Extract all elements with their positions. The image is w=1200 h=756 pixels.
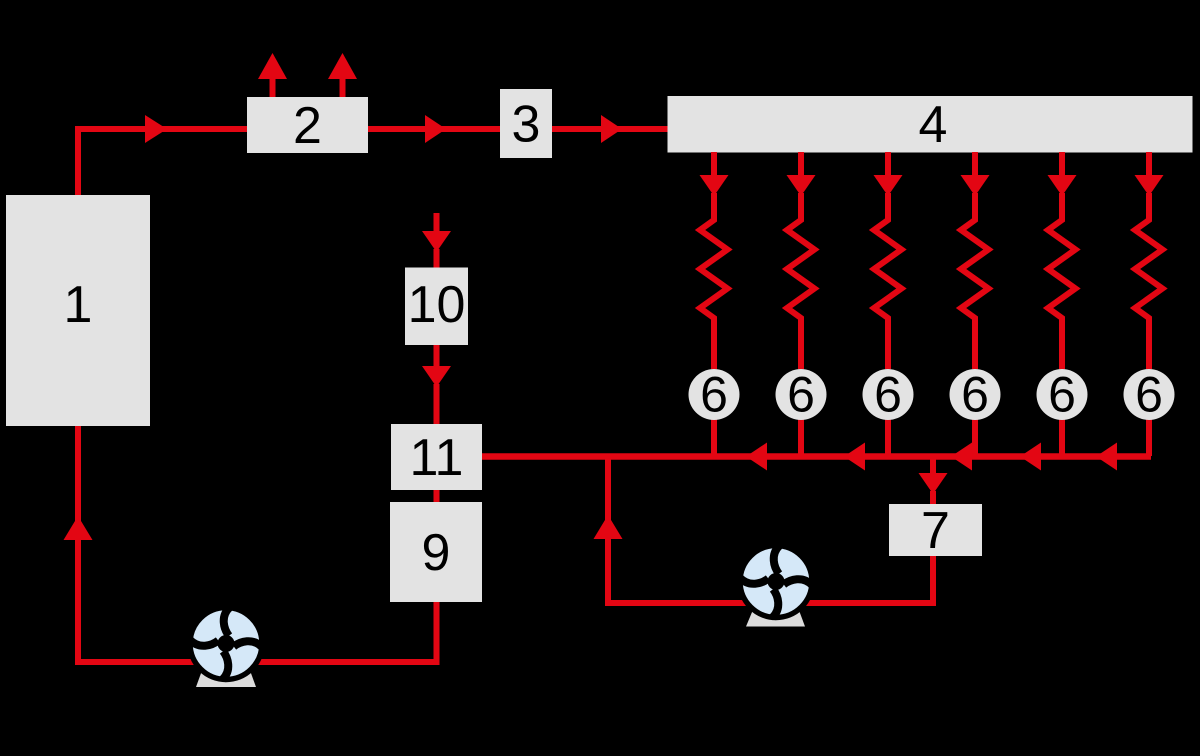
radiator branch 2: [787, 152, 816, 369]
wire from component 2 to component 3: [368, 115, 500, 143]
wire from bus down into component 7: [919, 456, 948, 504]
left loop wire: component 9 to pump 5 to component 1: [64, 426, 437, 662]
component 10: [405, 268, 468, 346]
svg-text:6: 6: [874, 367, 902, 423]
svg-text:4: 4: [919, 96, 948, 154]
vent arrow right on component 2: [328, 53, 357, 97]
component 9: [390, 502, 482, 602]
valve 6 c: [863, 367, 914, 423]
svg-text:11: 11: [410, 429, 464, 487]
component 11: [391, 424, 482, 490]
stems from valves 6 to return bus: [714, 419, 1149, 456]
svg-text:6: 6: [1135, 367, 1163, 423]
svg-text:7: 7: [921, 502, 950, 560]
component 1: [6, 195, 150, 426]
valve 6 b: [776, 367, 827, 423]
svg-text:9: 9: [422, 524, 451, 582]
return bus wire: [482, 443, 1151, 471]
stub between component 11 and component 9: [434, 488, 440, 504]
valve 6 f: [1124, 367, 1175, 423]
svg-text:6: 6: [700, 367, 728, 423]
component 3: [500, 89, 552, 158]
component 4 manifold: [668, 96, 1193, 154]
svg-text:6: 6: [1048, 367, 1076, 423]
radiator branch 5: [1048, 152, 1077, 369]
valve 6 e: [1037, 367, 1088, 423]
pump 5: [186, 603, 266, 687]
radiator branch 1: [700, 152, 729, 369]
valve 6 a: [689, 367, 740, 423]
valve 6 d: [950, 367, 1001, 423]
svg-text:2: 2: [293, 97, 322, 155]
svg-text:6: 6: [961, 367, 989, 423]
component 7: [889, 502, 982, 560]
wire from component 1 top to component 2: [78, 115, 248, 196]
svg-text:1: 1: [64, 276, 93, 334]
input arrow into component 10: [422, 213, 451, 268]
radiator branch 6: [1135, 152, 1164, 369]
svg-text:6: 6: [787, 367, 815, 423]
vent arrow left on component 2: [258, 53, 287, 97]
svg-text:3: 3: [512, 96, 541, 154]
radiator branch 3: [874, 152, 903, 369]
arrow from component 10 to component 11: [422, 345, 451, 424]
svg-text:10: 10: [408, 276, 466, 334]
component 2: [247, 97, 368, 155]
radiator branch 4: [961, 152, 990, 369]
wire from component 3 to component 4: [552, 115, 668, 143]
pump 8: [736, 541, 816, 626]
right loop wire: component 7 to pump 8 to bus: [594, 459, 934, 603]
